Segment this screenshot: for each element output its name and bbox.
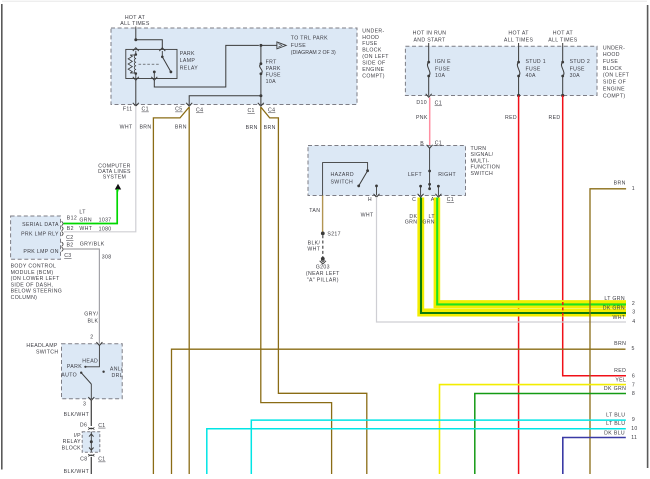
wire: IGN E fuse to D10 bbox=[428, 76, 430, 96]
ANL/DRL contact bbox=[102, 371, 104, 373]
svg-text:WHT: WHT bbox=[120, 125, 133, 131]
FRT PARK FUSE 10A label bbox=[266, 59, 281, 85]
svg-text:D10: D10 bbox=[416, 100, 427, 106]
svg-text:1: 1 bbox=[632, 186, 635, 192]
LT GRN core bbox=[437, 198, 626, 305]
svg-text:GRY/: GRY/ bbox=[84, 312, 98, 318]
svg-text:C8: C8 bbox=[80, 457, 87, 463]
svg-text:FUSE: FUSE bbox=[435, 66, 450, 72]
svg-text:2: 2 bbox=[90, 334, 93, 340]
wire: junction down to fuse bbox=[260, 45, 262, 63]
BLK/WHT label bbox=[307, 240, 320, 252]
turn signal switch label bbox=[471, 146, 501, 177]
svg-text:(NEAR LEFT: (NEAR LEFT bbox=[306, 271, 340, 277]
node: fuse output junction bbox=[259, 94, 262, 97]
svg-text:STUD 2: STUD 2 bbox=[570, 59, 591, 65]
TO TRL PARK FUSE label bbox=[291, 36, 336, 57]
wire BLK/WHT headlamp to I/P relay block bbox=[90, 400, 92, 426]
headlamp switch box bbox=[62, 344, 123, 399]
HAZARD SWITCH label bbox=[331, 172, 354, 186]
svg-text:SWITCH: SWITCH bbox=[331, 180, 354, 186]
svg-text:TAN: TAN bbox=[309, 208, 320, 214]
wire: hot feed into box bbox=[135, 27, 137, 40]
svg-text:BLK: BLK bbox=[87, 319, 98, 325]
turn signal / multifunction switch box bbox=[308, 146, 466, 196]
svg-text:RED: RED bbox=[505, 115, 517, 121]
svg-text:HAZARD: HAZARD bbox=[331, 172, 354, 178]
HOT AT ALL TIMES label (stud 2) bbox=[548, 31, 578, 44]
page border top bbox=[2, 0, 647, 2]
svg-text:1080: 1080 bbox=[99, 226, 112, 232]
svg-text:PNK: PNK bbox=[416, 115, 428, 121]
svg-text:BRN: BRN bbox=[246, 125, 258, 131]
wire DK BLU to stub 11 bbox=[563, 438, 626, 475]
wire BLK/WHT below I/P relay block bbox=[90, 457, 92, 474]
wire BLK/WHT to ground bbox=[322, 235, 324, 257]
svg-text:RELAY: RELAY bbox=[180, 66, 199, 72]
relay coil with resistor bbox=[128, 51, 137, 75]
svg-text:SIDE OF DASH,: SIDE OF DASH, bbox=[11, 282, 54, 288]
svg-text:GRN: GRN bbox=[79, 218, 92, 224]
STUD 2 FUSE 30A label bbox=[570, 59, 591, 79]
relay mechanical link (dashed) bbox=[139, 63, 161, 65]
hazard switch feed wire bbox=[323, 163, 368, 196]
svg-text:HOT AT: HOT AT bbox=[125, 15, 146, 21]
arrow to computer data lines bbox=[115, 184, 121, 190]
wire: STUD 1 fuse to bottom edge bbox=[518, 76, 520, 96]
svg-text:B2: B2 bbox=[67, 226, 74, 232]
HOT AT ALL TIMES label (left) bbox=[120, 15, 150, 27]
svg-text:(ON LOWER LEFT: (ON LOWER LEFT bbox=[11, 276, 60, 282]
svg-text:10A: 10A bbox=[435, 73, 445, 79]
svg-text:PARK: PARK bbox=[180, 51, 195, 57]
wire: feed to STUD 1 fuse bbox=[518, 43, 520, 62]
svg-text:ANL/: ANL/ bbox=[110, 367, 123, 373]
svg-text:3: 3 bbox=[632, 309, 635, 315]
svg-text:RELAY: RELAY bbox=[63, 439, 82, 445]
svg-text:1037: 1037 bbox=[99, 218, 112, 224]
svg-text:BRN: BRN bbox=[614, 180, 626, 186]
LT GRN label bbox=[79, 210, 92, 224]
svg-text:B2: B2 bbox=[67, 243, 74, 249]
svg-text:11: 11 bbox=[631, 435, 637, 441]
pin C of turn signal switch bbox=[418, 194, 424, 197]
wire: fuse to lower junction bbox=[260, 74, 262, 96]
wire BRN to stub 1 bbox=[590, 189, 626, 474]
LT GRN label bbox=[422, 214, 435, 225]
svg-text:WHT: WHT bbox=[307, 247, 320, 253]
wire LT GRN (highlighted) from pin A to stub 2 bbox=[434, 198, 441, 309]
pin B/C1 of turn signal switch bbox=[427, 145, 433, 148]
svg-text:2: 2 bbox=[632, 301, 635, 307]
wire BRN from C5 (straight) bbox=[188, 107, 190, 474]
wire DK GRN (highlighted) from pin C to stub 3 bbox=[417, 198, 424, 317]
DK GRN core bbox=[421, 198, 626, 314]
svg-text:BLK/: BLK/ bbox=[308, 240, 321, 246]
wire WHT from H pin to stub 4 bbox=[377, 197, 627, 322]
svg-text:D6: D6 bbox=[80, 422, 87, 428]
svg-text:BLK/WHT: BLK/WHT bbox=[64, 469, 90, 474]
pin C1/C4 of fuse block bbox=[258, 103, 264, 106]
svg-text:UNDER-: UNDER- bbox=[603, 45, 625, 51]
relay pin 85 (bottom left) bbox=[135, 74, 137, 79]
svg-text:DK BLU: DK BLU bbox=[604, 431, 625, 437]
wire BRN from C1 (right branch) bbox=[261, 107, 367, 474]
svg-text:BLOCK: BLOCK bbox=[62, 445, 82, 451]
headlamp switch blade bbox=[80, 372, 82, 374]
relay pin 87 (bottom right) bbox=[151, 77, 157, 80]
svg-text:SIDE OF: SIDE OF bbox=[603, 80, 626, 86]
wire WHT from F11 to BCM bbox=[64, 106, 136, 232]
svg-text:GRY/BLK: GRY/BLK bbox=[80, 242, 105, 248]
svg-text:9: 9 bbox=[632, 417, 635, 423]
pin C5/C4 of fuse block bbox=[186, 103, 192, 106]
svg-text:AND START: AND START bbox=[413, 38, 446, 44]
svg-text:3: 3 bbox=[83, 402, 86, 408]
svg-text:"A" PILLAR): "A" PILLAR) bbox=[307, 278, 339, 284]
svg-text:B: B bbox=[420, 141, 424, 147]
wire: STUD 2 fuse to bottom edge bbox=[562, 76, 564, 96]
svg-text:C4: C4 bbox=[268, 108, 275, 114]
svg-text:HOT AT: HOT AT bbox=[508, 31, 529, 37]
svg-text:ENGINE: ENGINE bbox=[362, 67, 384, 73]
svg-text:DK GRN: DK GRN bbox=[604, 386, 626, 392]
body control module box bbox=[11, 216, 61, 259]
node in I/P relay block bbox=[90, 440, 93, 443]
svg-text:COMPT): COMPT) bbox=[362, 73, 385, 79]
svg-text:FUSE: FUSE bbox=[291, 43, 306, 49]
node: relay feed junction bbox=[134, 38, 137, 41]
I/P relay block box bbox=[82, 432, 100, 453]
page border left bbox=[1, 4, 3, 470]
svg-text:HOT IN RUN: HOT IN RUN bbox=[413, 31, 447, 37]
svg-text:WHT: WHT bbox=[361, 213, 374, 219]
svg-text:BLK/WHT: BLK/WHT bbox=[64, 412, 90, 418]
wire: relay 85 to F11 bbox=[135, 80, 137, 105]
svg-text:HOT AT: HOT AT bbox=[553, 31, 574, 37]
wire YEL to stub 7 bbox=[440, 385, 627, 474]
svg-text:HOOD: HOOD bbox=[603, 52, 620, 58]
svg-text:6: 6 bbox=[632, 374, 635, 380]
pin F11/C1 of fuse block bbox=[133, 103, 139, 106]
svg-text:BELOW STEERING: BELOW STEERING bbox=[11, 289, 63, 295]
svg-text:C1: C1 bbox=[435, 101, 442, 107]
wire LT GRN serial data bbox=[64, 190, 118, 224]
svg-text:BODY CONTROL: BODY CONTROL bbox=[11, 264, 57, 270]
svg-text:4: 4 bbox=[632, 319, 635, 325]
svg-text:8: 8 bbox=[632, 391, 635, 397]
turn signal RIGHT contact bbox=[437, 185, 440, 188]
svg-text:308: 308 bbox=[102, 255, 112, 261]
STUD 1 FUSE 40A label bbox=[526, 59, 547, 79]
svg-text:IGN E: IGN E bbox=[435, 59, 451, 65]
HOT IN RUN AND START label bbox=[413, 31, 447, 44]
wire: junction to C5 pin bbox=[189, 96, 261, 105]
pin 3 of headlamp switch bbox=[88, 397, 94, 400]
node: fuse feed junction bbox=[259, 44, 262, 47]
svg-text:DK GRN: DK GRN bbox=[603, 305, 625, 311]
svg-text:WHT: WHT bbox=[613, 315, 626, 321]
svg-text:ALL TIMES: ALL TIMES bbox=[120, 21, 150, 27]
svg-text:SYSTEM: SYSTEM bbox=[103, 175, 126, 181]
turn signal common pole wire bbox=[429, 148, 431, 189]
svg-text:MODULE (BCM): MODULE (BCM) bbox=[11, 270, 54, 276]
hazard switch blade bbox=[359, 171, 368, 186]
svg-text:(ON LEFT: (ON LEFT bbox=[603, 73, 630, 79]
svg-text:WHT: WHT bbox=[79, 226, 92, 232]
svg-text:BLOCK: BLOCK bbox=[362, 48, 382, 54]
underhood fuse block box (right) bbox=[405, 46, 597, 95]
svg-text:LT GRN: LT GRN bbox=[604, 296, 625, 302]
svg-text:MULTI-: MULTI- bbox=[471, 158, 490, 164]
wire DK GRN to stub 8 bbox=[475, 394, 626, 475]
relay pin 30 (top right) bbox=[159, 48, 165, 51]
HOT AT ALL TIMES label (stud 1) bbox=[504, 31, 534, 44]
svg-text:ENGINE: ENGINE bbox=[603, 86, 625, 92]
hazard switch contact bbox=[366, 169, 369, 172]
relay switch blade bbox=[153, 56, 172, 79]
svg-text:RED: RED bbox=[614, 368, 626, 374]
svg-text:F11: F11 bbox=[123, 107, 133, 113]
svg-text:GRN: GRN bbox=[422, 219, 435, 225]
svg-text:FUSE: FUSE bbox=[266, 72, 281, 78]
svg-text:10: 10 bbox=[631, 426, 637, 432]
I/P relay block internal wire bbox=[90, 432, 92, 453]
svg-text:LT: LT bbox=[79, 210, 86, 216]
svg-text:SWITCH: SWITCH bbox=[36, 350, 59, 356]
svg-text:FUSE: FUSE bbox=[570, 66, 585, 72]
svg-text:AUTO: AUTO bbox=[61, 373, 77, 379]
svg-text:BRN: BRN bbox=[139, 125, 151, 131]
underhood fuse block (right) label bbox=[603, 45, 630, 99]
svg-text:BLOCK: BLOCK bbox=[603, 66, 623, 72]
svg-text:SERIAL DATA: SERIAL DATA bbox=[22, 222, 59, 228]
BODY CONTROL MODULE label bbox=[11, 264, 63, 301]
svg-text:C2: C2 bbox=[66, 235, 73, 241]
BCM pin arcs bbox=[62, 221, 64, 251]
svg-text:C4: C4 bbox=[196, 108, 203, 114]
ANL/DRL label bbox=[110, 367, 123, 380]
svg-text:C: C bbox=[412, 197, 416, 203]
svg-text:C1: C1 bbox=[142, 107, 149, 113]
wire LT BLU to stub 9 bbox=[251, 420, 626, 474]
wire: relay 87 to fuse/arrow feed bbox=[154, 45, 259, 87]
svg-text:YEL: YEL bbox=[615, 377, 626, 383]
svg-text:SIGNAL/: SIGNAL/ bbox=[471, 152, 494, 158]
wire PNK from D10 to turn signal switch bbox=[429, 98, 431, 147]
svg-text:DRL: DRL bbox=[112, 373, 123, 379]
splice S217 bbox=[321, 232, 325, 236]
page border right bbox=[647, 5, 649, 468]
IGN E FUSE 10A label bbox=[435, 59, 451, 79]
svg-text:HOOD: HOOD bbox=[362, 35, 379, 41]
svg-text:TURN: TURN bbox=[471, 146, 487, 152]
svg-text:C1: C1 bbox=[98, 457, 105, 463]
wire: feed to STUD 2 fuse bbox=[562, 43, 564, 62]
wire BRN from C5 (left branch) bbox=[153, 107, 189, 474]
wire BRN from C1 (straight then right) bbox=[261, 107, 332, 474]
wire BRN to stub 5 bbox=[172, 349, 626, 474]
hazard switch H contact bbox=[375, 185, 378, 188]
svg-text:C1: C1 bbox=[247, 108, 254, 114]
COMPUTER DATA LINES SYSTEM label bbox=[98, 164, 131, 181]
svg-text:HEAD: HEAD bbox=[82, 359, 98, 365]
wire RED from STUD 1 fuse bbox=[518, 96, 520, 475]
svg-text:STUD 1: STUD 1 bbox=[526, 59, 547, 65]
svg-text:10A: 10A bbox=[266, 79, 276, 85]
fuse FRT PARK FUSE 10A bbox=[260, 62, 263, 65]
svg-text:FUSE: FUSE bbox=[362, 41, 377, 47]
turn signal LEFT contact bbox=[419, 185, 422, 188]
headlamp switch feed wire bbox=[85, 345, 99, 367]
svg-text:30A: 30A bbox=[570, 73, 580, 79]
ground G203 bbox=[321, 257, 325, 261]
svg-text:G203: G203 bbox=[316, 265, 330, 271]
svg-text:RIGHT: RIGHT bbox=[438, 172, 456, 178]
svg-text:BRN: BRN bbox=[264, 125, 276, 131]
pin D10/C1 of fuse block bbox=[426, 94, 432, 97]
underhood fuse block box (left) bbox=[111, 28, 357, 105]
wire GRY/BLK to headlamp switch bbox=[64, 249, 100, 344]
svg-text:C1: C1 bbox=[435, 141, 442, 147]
svg-text:LEFT: LEFT bbox=[408, 172, 423, 178]
svg-text:ALL TIMES: ALL TIMES bbox=[504, 38, 534, 44]
svg-text:GRN: GRN bbox=[405, 219, 418, 225]
svg-text:C3: C3 bbox=[64, 253, 71, 259]
svg-text:C1: C1 bbox=[98, 423, 105, 429]
wire LT BLU to stub 10 bbox=[207, 429, 626, 474]
relay PARK LAMP RELAY outline bbox=[126, 49, 177, 78]
wire: junction to C1 pin bbox=[260, 96, 262, 105]
underhood fuse block (left) label bbox=[362, 28, 389, 79]
svg-text:FUSE: FUSE bbox=[526, 66, 541, 72]
pin A/C1 of turn signal switch bbox=[435, 194, 441, 197]
svg-text:H: H bbox=[368, 197, 372, 203]
svg-text:BRN: BRN bbox=[614, 341, 626, 347]
HEADLAMP SWITCH label bbox=[26, 343, 58, 356]
fuse IGN E FUSE 10A bbox=[427, 61, 430, 64]
svg-text:C1: C1 bbox=[447, 197, 454, 203]
GRY/BLK label (vertical run) bbox=[84, 312, 98, 325]
svg-text:UNDER-: UNDER- bbox=[362, 28, 384, 34]
wire RED from STUD 2 fuse to stub 6 bbox=[563, 96, 626, 376]
svg-text:SWITCH: SWITCH bbox=[471, 171, 494, 177]
svg-text:PRK LMP RLY: PRK LMP RLY bbox=[21, 232, 59, 238]
svg-text:LAMP: LAMP bbox=[180, 58, 196, 64]
svg-text:COLUMN): COLUMN) bbox=[11, 295, 38, 301]
svg-text:FRT: FRT bbox=[266, 59, 278, 65]
svg-text:ALL TIMES: ALL TIMES bbox=[548, 38, 578, 44]
svg-text:PARK: PARK bbox=[67, 364, 82, 370]
fuse STUD 2 FUSE 30A bbox=[561, 61, 564, 64]
svg-text:S217: S217 bbox=[327, 231, 341, 237]
svg-text:BRN: BRN bbox=[175, 125, 187, 131]
svg-text:RED: RED bbox=[548, 115, 560, 121]
svg-text:7: 7 bbox=[632, 382, 635, 388]
I/P RELAY BLOCK label bbox=[62, 433, 82, 451]
svg-text:5: 5 bbox=[632, 346, 635, 352]
wire: junction to TRL arrow bbox=[261, 44, 277, 46]
wire: junction to switch pin bbox=[136, 40, 163, 50]
svg-text:TO TRL PARK: TO TRL PARK bbox=[291, 36, 328, 42]
svg-text:(DIAGRAM 2 OF 3): (DIAGRAM 2 OF 3) bbox=[291, 50, 336, 56]
svg-text:B12: B12 bbox=[67, 216, 77, 222]
svg-text:COMPT): COMPT) bbox=[603, 93, 626, 99]
svg-text:FUSE: FUSE bbox=[603, 59, 618, 65]
svg-text:FUNCTION: FUNCTION bbox=[471, 165, 501, 171]
svg-text:PARK: PARK bbox=[266, 66, 281, 72]
wire RED showing through highlight bbox=[562, 302, 564, 317]
svg-text:SIDE OF: SIDE OF bbox=[362, 61, 385, 67]
wire TAN from hazard switch bbox=[322, 196, 324, 234]
svg-text:LT BLU: LT BLU bbox=[606, 421, 625, 427]
arrow: TO TRL PARK FUSE bbox=[277, 42, 286, 49]
wire: feed to IGN E fuse bbox=[428, 43, 430, 62]
svg-text:(ON LEFT: (ON LEFT bbox=[362, 54, 389, 60]
DK GRN label bbox=[405, 214, 418, 225]
G203 label bbox=[306, 265, 340, 284]
relay pin 86 (top left) bbox=[133, 48, 139, 51]
pin H of turn signal switch bbox=[374, 194, 380, 197]
fuse STUD 1 FUSE 40A bbox=[517, 61, 520, 64]
svg-text:LT BLU: LT BLU bbox=[606, 413, 625, 419]
svg-text:PRK LMP ON: PRK LMP ON bbox=[23, 249, 58, 255]
svg-text:C5: C5 bbox=[175, 107, 182, 113]
relay PARK LAMP RELAY label bbox=[180, 51, 199, 72]
svg-text:HEADLAMP: HEADLAMP bbox=[26, 343, 58, 349]
svg-text:40A: 40A bbox=[526, 73, 536, 79]
